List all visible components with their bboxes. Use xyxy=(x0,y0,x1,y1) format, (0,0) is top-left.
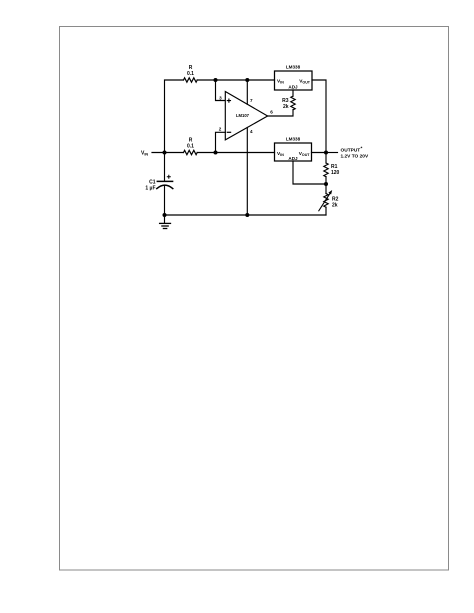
svg-text:6: 6 xyxy=(270,110,273,115)
svg-text:2k: 2k xyxy=(332,202,338,208)
wire: VIN lead to R left xyxy=(152,152,184,154)
capacitor C1 1uF xyxy=(145,175,172,191)
wire: top-left corner from R left lead down left rail xyxy=(165,80,184,153)
potentiometer R2 2k xyxy=(319,184,339,215)
svg-text:120: 120 xyxy=(331,170,340,176)
wire: pin 7 supply from top rail to op-amp xyxy=(246,80,248,104)
wire: LM338 (bottom) Vout to output node xyxy=(312,152,327,154)
node: junction VIN rail / left rail xyxy=(163,151,167,155)
resistor R 0.1 (top ballast) xyxy=(184,65,198,82)
resistor R 0.1 (bottom ballast) xyxy=(184,138,198,155)
node: junction top rail / pin 7 xyxy=(245,78,249,82)
svg-text:3: 3 xyxy=(219,95,222,100)
ground xyxy=(160,215,171,229)
svg-text:ADJ: ADJ xyxy=(288,156,298,161)
node: junction bottom rail / pin 4 xyxy=(245,213,249,217)
wire: bottom rail xyxy=(165,214,327,216)
svg-text:LM107: LM107 xyxy=(236,113,250,118)
node: junction top rail / pin 3 xyxy=(214,78,218,82)
svg-text:2: 2 xyxy=(219,127,222,132)
svg-text:0.1: 0.1 xyxy=(187,71,194,77)
svg-text:1 µF: 1 µF xyxy=(145,185,155,191)
wire: output stub xyxy=(326,152,338,154)
wire: top rail from R to LM338 (top) Vin xyxy=(197,79,274,81)
wire: pin 4 supply from op-amp to bottom rail xyxy=(246,128,248,216)
svg-text:0.1: 0.1 xyxy=(187,144,194,150)
resistor R1 120 xyxy=(324,153,340,185)
wire: pin 2 step from VIN rail to op-amp - input xyxy=(216,132,226,152)
wire: LM338 (top) Vout to output bus xyxy=(312,80,326,153)
svg-text:2k: 2k xyxy=(283,104,289,110)
svg-text:LM338: LM338 xyxy=(286,65,301,70)
node: junction R1 / R2 / ADJ xyxy=(324,182,328,186)
svg-text:LM338: LM338 xyxy=(286,137,301,142)
wire: capacitor C1 to bottom rail xyxy=(164,186,166,215)
node: junction bottom rail / ground xyxy=(163,213,167,217)
op-amp U1 LM107 xyxy=(225,92,267,140)
svg-text:4: 4 xyxy=(250,129,253,134)
node: junction VIN rail / pin 2 xyxy=(214,151,218,155)
svg-text:*: * xyxy=(361,145,363,151)
wire: LM338 (bottom) ADJ to R1/R2 junction xyxy=(293,161,326,184)
wire: pin 3 step from top rail to op-amp + input xyxy=(216,80,226,101)
regulator U2 LM338 (top) xyxy=(275,65,313,91)
wire: left rail down to capacitor C1 xyxy=(164,153,166,182)
wire: op-amp output pin 6 to R3 bottom xyxy=(268,110,293,116)
wire: VIN rail from R to LM338 (bottom) Vin xyxy=(197,152,274,154)
regulator U3 LM338 (bottom) xyxy=(275,137,312,161)
node OUTPUT label xyxy=(341,145,369,159)
svg-text:OUTPUT: OUTPUT xyxy=(341,147,361,153)
svg-text:ADJ: ADJ xyxy=(288,85,298,90)
svg-text:7: 7 xyxy=(250,98,253,103)
svg-text:1.2V TO 20V: 1.2V TO 20V xyxy=(341,154,369,160)
resistor R3 2k xyxy=(282,90,295,110)
node: output junction xyxy=(324,151,328,155)
